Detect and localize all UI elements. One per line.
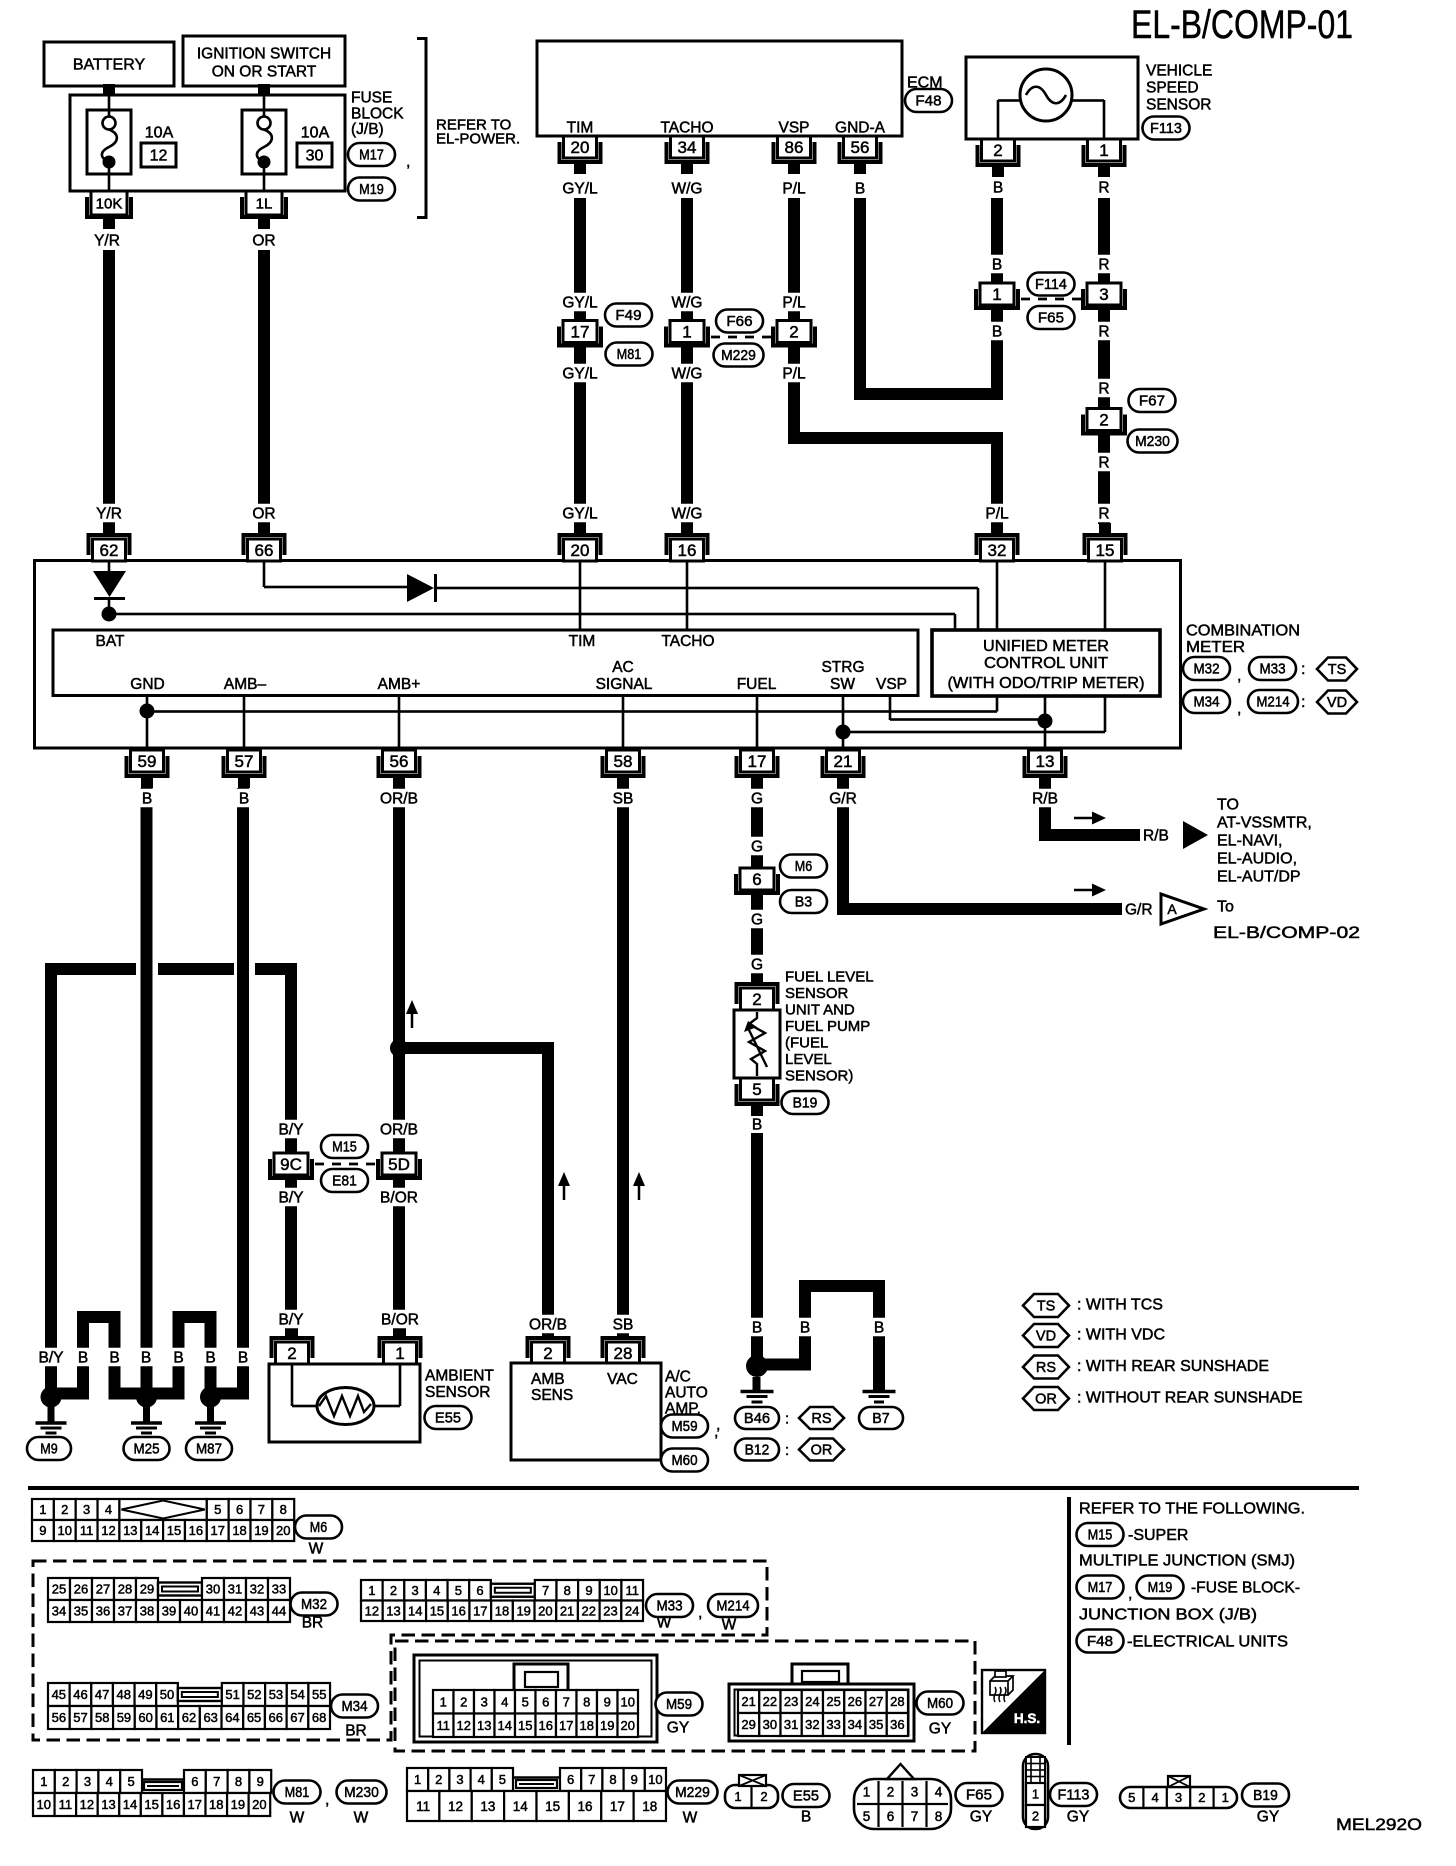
svg-text:M59: M59	[666, 1697, 692, 1713]
svg-text:66: 66	[255, 541, 274, 560]
svg-text:1: 1	[682, 322, 691, 341]
svg-text:RS: RS	[811, 1411, 831, 1427]
svg-text:R: R	[1098, 256, 1109, 273]
svg-text:20: 20	[621, 1718, 635, 1733]
svg-text:5D: 5D	[388, 1155, 410, 1174]
svg-text:B: B	[752, 1116, 762, 1133]
svg-text:12: 12	[457, 1718, 471, 1733]
svg-text:12: 12	[101, 1523, 115, 1538]
svg-text:57: 57	[235, 752, 254, 771]
svg-text:R: R	[1098, 179, 1109, 196]
svg-text:1: 1	[39, 1502, 46, 1517]
svg-text:16: 16	[189, 1523, 203, 1538]
svg-text:10: 10	[37, 1797, 51, 1812]
svg-text:1: 1	[414, 1772, 421, 1787]
svg-text:5: 5	[863, 1809, 871, 1824]
svg-text:3: 3	[481, 1694, 488, 1709]
svg-text:G: G	[751, 956, 763, 973]
svg-text:17: 17	[473, 1603, 487, 1618]
svg-text:,: ,	[698, 1605, 702, 1622]
svg-text:39: 39	[162, 1604, 176, 1619]
svg-text:10K: 10K	[96, 195, 123, 212]
svg-text:AMB: AMB	[531, 1371, 565, 1388]
svg-text:RS: RS	[1036, 1360, 1056, 1376]
svg-text:33: 33	[826, 1717, 840, 1732]
svg-text:A/C: A/C	[665, 1368, 691, 1385]
svg-text:5: 5	[522, 1694, 529, 1709]
svg-text:TACHO: TACHO	[661, 633, 714, 650]
svg-text:28: 28	[118, 1582, 132, 1597]
svg-text:EL-AUDIO,: EL-AUDIO,	[1217, 851, 1297, 868]
svg-text:15: 15	[167, 1523, 181, 1538]
svg-text:B: B	[855, 180, 865, 197]
svg-text:2: 2	[287, 1344, 296, 1363]
svg-text:B: B	[992, 256, 1002, 273]
svg-text:Y/R: Y/R	[94, 232, 120, 249]
svg-text:11: 11	[437, 1718, 451, 1733]
svg-text:56: 56	[851, 138, 870, 157]
svg-text:2: 2	[789, 322, 798, 341]
svg-text:13: 13	[480, 1799, 495, 1814]
svg-text:56: 56	[390, 752, 409, 771]
svg-text:GY: GY	[1257, 1808, 1279, 1825]
svg-text:43: 43	[250, 1604, 264, 1619]
svg-text:B7: B7	[872, 1411, 889, 1427]
svg-text:(WITH ODO/TRIP METER): (WITH ODO/TRIP METER)	[948, 675, 1145, 692]
svg-text:2: 2	[1099, 410, 1108, 429]
svg-text:13: 13	[123, 1523, 137, 1538]
svg-text:TIM: TIM	[567, 119, 594, 136]
svg-text:28: 28	[614, 1344, 633, 1363]
svg-text:50: 50	[160, 1687, 174, 1702]
svg-text:36: 36	[96, 1604, 110, 1619]
svg-text:F114: F114	[1035, 277, 1067, 293]
svg-text:W: W	[290, 1809, 305, 1826]
svg-text:4: 4	[105, 1502, 112, 1517]
svg-text:-SUPER: -SUPER	[1128, 1527, 1188, 1544]
svg-text:GY: GY	[929, 1720, 951, 1737]
svg-text:GY/L: GY/L	[562, 294, 598, 311]
svg-text:E55: E55	[435, 1411, 461, 1427]
svg-text:-FUSE BLOCK-: -FUSE BLOCK-	[1191, 1580, 1300, 1597]
svg-text:GND-A: GND-A	[835, 119, 886, 136]
svg-text:6: 6	[236, 1502, 243, 1517]
svg-text:: WITHOUT REAR SUNSHADE: : WITHOUT REAR SUNSHADE	[1077, 1390, 1303, 1407]
svg-text:B/Y: B/Y	[279, 1311, 304, 1328]
svg-text:GY: GY	[667, 1719, 689, 1736]
svg-text:6: 6	[191, 1774, 198, 1789]
svg-text:M25: M25	[133, 1442, 159, 1458]
svg-text:BATTERY: BATTERY	[73, 57, 146, 74]
svg-text:AC: AC	[612, 659, 634, 676]
svg-text:61: 61	[160, 1710, 174, 1725]
svg-text:COMBINATION: COMBINATION	[1186, 623, 1300, 640]
svg-text:9: 9	[585, 1583, 592, 1598]
svg-text:29: 29	[741, 1717, 755, 1732]
svg-text:4: 4	[433, 1583, 440, 1598]
svg-text:M81: M81	[617, 347, 642, 363]
svg-text:2: 2	[390, 1583, 397, 1598]
svg-text:20: 20	[571, 541, 590, 560]
svg-text:9: 9	[604, 1694, 611, 1709]
svg-text:12: 12	[80, 1797, 94, 1812]
svg-text:13: 13	[477, 1718, 491, 1733]
svg-text:,: ,	[1237, 668, 1241, 685]
svg-text:5: 5	[752, 1080, 761, 1099]
svg-text:P/L: P/L	[782, 180, 806, 197]
svg-text:: WITH REAR SUNSHADE: : WITH REAR SUNSHADE	[1077, 1358, 1269, 1375]
svg-text:23: 23	[784, 1694, 798, 1709]
svg-text:7: 7	[213, 1774, 220, 1789]
svg-text:B/Y: B/Y	[279, 1189, 304, 1206]
svg-text:16: 16	[451, 1603, 465, 1618]
svg-text:UNIFIED METER: UNIFIED METER	[983, 638, 1109, 655]
svg-text:34: 34	[52, 1604, 66, 1619]
svg-text:8: 8	[609, 1772, 616, 1787]
svg-text:8: 8	[235, 1774, 242, 1789]
svg-text:M19: M19	[359, 182, 384, 198]
svg-text:1: 1	[863, 1784, 871, 1799]
svg-text:OR: OR	[1035, 1392, 1057, 1408]
svg-text:TO: TO	[1217, 797, 1239, 814]
svg-text:VD: VD	[1036, 1329, 1056, 1345]
svg-text:48: 48	[117, 1687, 131, 1702]
svg-text:24: 24	[805, 1694, 819, 1709]
svg-text:,: ,	[1128, 1586, 1132, 1603]
svg-text:20: 20	[571, 138, 590, 157]
svg-text:R/B: R/B	[1143, 827, 1169, 844]
svg-text:17: 17	[210, 1523, 224, 1538]
svg-text:44: 44	[272, 1604, 286, 1619]
svg-text:6: 6	[752, 870, 761, 889]
svg-text:F113: F113	[1150, 121, 1182, 137]
svg-text:46: 46	[73, 1687, 87, 1702]
svg-text:MEL292O: MEL292O	[1336, 1815, 1422, 1834]
svg-text:M34: M34	[1193, 695, 1219, 711]
svg-text:6: 6	[476, 1583, 483, 1598]
svg-text:B: B	[993, 179, 1003, 196]
svg-text:86: 86	[785, 138, 804, 157]
svg-text:(J/B): (J/B)	[351, 121, 384, 138]
svg-text:B3: B3	[795, 895, 812, 911]
svg-text:13: 13	[1036, 752, 1055, 771]
svg-text:OR: OR	[252, 505, 275, 522]
svg-text:M60: M60	[927, 1696, 953, 1712]
svg-text:14: 14	[513, 1799, 529, 1814]
svg-text:B: B	[992, 323, 1002, 340]
svg-text:OR: OR	[252, 232, 275, 249]
svg-text:8: 8	[280, 1502, 287, 1517]
svg-text:7: 7	[588, 1772, 595, 1787]
svg-text:24: 24	[625, 1603, 639, 1618]
svg-text:1L: 1L	[256, 195, 273, 212]
svg-text:14: 14	[498, 1718, 512, 1733]
svg-text:58: 58	[614, 752, 633, 771]
svg-text:27: 27	[869, 1694, 883, 1709]
svg-text:14: 14	[408, 1603, 422, 1618]
svg-text:9C: 9C	[280, 1155, 302, 1174]
svg-text:40: 40	[184, 1604, 198, 1619]
svg-text:2: 2	[760, 1789, 767, 1804]
svg-text:A: A	[1167, 901, 1177, 917]
svg-text:18: 18	[209, 1797, 223, 1812]
svg-text:4: 4	[935, 1784, 943, 1799]
svg-text:TACHO: TACHO	[660, 119, 713, 136]
svg-text:FUEL PUMP: FUEL PUMP	[785, 1018, 870, 1035]
svg-text:W/G: W/G	[672, 180, 703, 197]
svg-text:1: 1	[1222, 1790, 1229, 1805]
svg-text:GY/L: GY/L	[562, 365, 598, 382]
svg-text:M34: M34	[341, 1699, 367, 1715]
svg-text:3: 3	[411, 1583, 418, 1598]
svg-text:17: 17	[571, 322, 590, 341]
svg-text:11: 11	[416, 1799, 430, 1814]
svg-text:21: 21	[560, 1603, 574, 1618]
svg-text:F67: F67	[1139, 394, 1165, 410]
svg-text:7: 7	[542, 1583, 549, 1598]
svg-text:To: To	[1217, 899, 1234, 916]
svg-text:W: W	[722, 1616, 737, 1633]
svg-text:37: 37	[118, 1604, 132, 1619]
svg-text:11: 11	[625, 1583, 639, 1598]
svg-text:20: 20	[538, 1603, 552, 1618]
svg-text:M15: M15	[1088, 1528, 1113, 1544]
svg-text:31: 31	[228, 1582, 242, 1597]
svg-text:6: 6	[567, 1772, 574, 1787]
svg-text:26: 26	[74, 1582, 88, 1597]
svg-text:18: 18	[232, 1523, 246, 1538]
svg-text:54: 54	[290, 1687, 304, 1702]
svg-text:EL-B/COMP-01: EL-B/COMP-01	[1131, 3, 1353, 47]
svg-text:Y/R: Y/R	[96, 505, 122, 522]
svg-text:65: 65	[247, 1710, 261, 1725]
svg-text:3: 3	[1099, 285, 1108, 304]
svg-text:W: W	[354, 1809, 369, 1826]
svg-text:P/L: P/L	[782, 294, 806, 311]
svg-text::: :	[1301, 661, 1305, 678]
svg-text:GY: GY	[970, 1808, 992, 1825]
svg-text:11: 11	[59, 1797, 73, 1812]
svg-text:B19: B19	[1253, 1788, 1278, 1804]
svg-text:17: 17	[559, 1718, 573, 1733]
svg-text:UNIT AND: UNIT AND	[785, 1001, 855, 1018]
svg-text:G/R: G/R	[829, 790, 857, 807]
svg-text:10A: 10A	[145, 125, 174, 142]
svg-text:W/G: W/G	[672, 294, 703, 311]
svg-text:58: 58	[95, 1710, 109, 1725]
svg-text:(FUEL: (FUEL	[785, 1034, 828, 1051]
svg-text:17: 17	[748, 752, 767, 771]
svg-text:AMBIENT: AMBIENT	[425, 1367, 494, 1384]
svg-text:11: 11	[80, 1523, 94, 1538]
svg-text:GY/L: GY/L	[562, 180, 598, 197]
svg-text:19: 19	[600, 1718, 614, 1733]
svg-text:BR: BR	[302, 1614, 324, 1631]
svg-text:20: 20	[252, 1797, 266, 1812]
svg-text:B46: B46	[744, 1411, 770, 1427]
svg-text:VAC: VAC	[607, 1371, 638, 1388]
svg-text:1: 1	[368, 1583, 375, 1598]
svg-text:W/G: W/G	[672, 365, 703, 382]
svg-text:12: 12	[150, 148, 168, 165]
svg-text:1: 1	[40, 1774, 47, 1789]
svg-text:16: 16	[578, 1799, 593, 1814]
svg-text:SENSOR: SENSOR	[785, 985, 849, 1002]
svg-text:SENSOR: SENSOR	[425, 1384, 490, 1401]
svg-text:SB: SB	[613, 1316, 634, 1333]
svg-text:M229: M229	[675, 1785, 710, 1801]
svg-text:68: 68	[312, 1710, 326, 1725]
svg-text:G: G	[751, 790, 763, 807]
svg-text:2: 2	[993, 141, 1002, 160]
svg-text:34: 34	[678, 138, 697, 157]
svg-text:,: ,	[325, 1792, 329, 1809]
svg-text:M19: M19	[1148, 1580, 1173, 1596]
svg-text:21: 21	[741, 1694, 755, 1709]
svg-text::: :	[785, 1442, 789, 1459]
svg-text:GY: GY	[1067, 1808, 1089, 1825]
svg-text:20: 20	[276, 1523, 290, 1538]
svg-text:19: 19	[516, 1603, 530, 1618]
svg-text:10: 10	[648, 1772, 662, 1787]
svg-text:5: 5	[1128, 1790, 1135, 1805]
svg-text:BLOCK: BLOCK	[351, 105, 404, 122]
svg-text:B/Y: B/Y	[279, 1121, 304, 1138]
svg-text:15: 15	[430, 1603, 444, 1618]
svg-text:SENS: SENS	[531, 1387, 573, 1404]
svg-text:49: 49	[138, 1687, 152, 1702]
svg-text:OR/B: OR/B	[380, 1121, 418, 1138]
svg-text:3: 3	[83, 1502, 90, 1517]
svg-text:2: 2	[1032, 1809, 1039, 1824]
svg-text:STRG: STRG	[821, 659, 864, 676]
svg-text:41: 41	[206, 1604, 220, 1619]
svg-text:4: 4	[478, 1772, 485, 1787]
svg-text:22: 22	[763, 1694, 777, 1709]
svg-text:G: G	[751, 911, 763, 928]
svg-text:32: 32	[988, 541, 1007, 560]
svg-text:B19: B19	[793, 1096, 818, 1112]
svg-text:1: 1	[734, 1789, 741, 1804]
svg-text:35: 35	[74, 1604, 88, 1619]
svg-text:F48: F48	[1087, 1634, 1113, 1650]
svg-text:64: 64	[225, 1710, 239, 1725]
svg-text:M33: M33	[656, 1599, 682, 1615]
svg-text:51: 51	[225, 1687, 239, 1702]
svg-text:F65: F65	[966, 1788, 992, 1804]
svg-text:16: 16	[678, 541, 697, 560]
svg-text:60: 60	[138, 1710, 152, 1725]
svg-text:VD: VD	[1327, 695, 1347, 711]
svg-text:AT-VSSMTR,: AT-VSSMTR,	[1217, 815, 1312, 832]
svg-text:FUSE: FUSE	[351, 89, 392, 106]
svg-text:10: 10	[58, 1523, 72, 1538]
svg-text:FUEL: FUEL	[737, 676, 777, 693]
svg-text:F49: F49	[615, 308, 641, 324]
svg-text:B: B	[801, 1808, 811, 1825]
svg-text:R/B: R/B	[1032, 790, 1058, 807]
svg-text:2: 2	[62, 1774, 69, 1789]
svg-text:TS: TS	[1328, 662, 1347, 678]
svg-text:26: 26	[848, 1694, 862, 1709]
svg-text:M59: M59	[671, 1419, 697, 1435]
svg-text:27: 27	[96, 1582, 110, 1597]
svg-text:15: 15	[1096, 541, 1115, 560]
svg-text:4: 4	[501, 1694, 508, 1709]
svg-text:EL-AUT/DP: EL-AUT/DP	[1217, 869, 1301, 886]
svg-text:10: 10	[603, 1583, 617, 1598]
svg-text:2: 2	[460, 1694, 467, 1709]
svg-text:SB: SB	[613, 790, 634, 807]
svg-text:R: R	[1098, 454, 1109, 471]
svg-text:10: 10	[621, 1694, 635, 1709]
svg-text:36: 36	[890, 1717, 904, 1732]
svg-text:W: W	[657, 1614, 672, 1631]
svg-text:,: ,	[406, 154, 410, 171]
svg-text:33: 33	[272, 1582, 286, 1597]
svg-text:M15: M15	[332, 1140, 357, 1156]
svg-text:IGNITION SWITCH: IGNITION SWITCH	[197, 45, 331, 62]
svg-text:OR/B: OR/B	[380, 790, 418, 807]
svg-text:8: 8	[935, 1809, 943, 1824]
svg-text:EL-POWER.: EL-POWER.	[436, 130, 520, 147]
svg-text:,: ,	[1237, 701, 1241, 718]
svg-text:3: 3	[84, 1774, 91, 1789]
svg-text:21: 21	[834, 752, 853, 771]
svg-text:OR/B: OR/B	[529, 1316, 567, 1333]
svg-text:AUTO: AUTO	[665, 1384, 708, 1401]
svg-text:B: B	[874, 1319, 884, 1336]
svg-text:MULTIPLE JUNCTION (SMJ): MULTIPLE JUNCTION (SMJ)	[1079, 1553, 1295, 1570]
svg-text:GY/L: GY/L	[562, 505, 598, 522]
svg-text:45: 45	[52, 1687, 66, 1702]
svg-text:TIM: TIM	[569, 633, 596, 650]
svg-text:H.S.: H.S.	[1014, 1711, 1040, 1726]
svg-text:F66: F66	[726, 314, 752, 330]
svg-text:30: 30	[763, 1717, 777, 1732]
svg-text:32: 32	[805, 1717, 819, 1732]
svg-text:P/L: P/L	[985, 505, 1009, 522]
svg-text:1: 1	[395, 1344, 404, 1363]
svg-text:REFER TO THE FOLLOWING.: REFER TO THE FOLLOWING.	[1079, 1501, 1305, 1518]
svg-text:: WITH VDC: : WITH VDC	[1077, 1327, 1165, 1344]
svg-text:E81: E81	[332, 1174, 357, 1190]
svg-text:17: 17	[187, 1797, 201, 1812]
svg-text:1: 1	[440, 1694, 447, 1709]
svg-text:M6: M6	[795, 859, 812, 875]
svg-text:B/OR: B/OR	[380, 1189, 418, 1206]
svg-text:19: 19	[254, 1523, 268, 1538]
svg-text:52: 52	[247, 1687, 261, 1702]
svg-text:W/G: W/G	[672, 505, 703, 522]
svg-text:38: 38	[140, 1604, 154, 1619]
svg-text:B: B	[142, 790, 152, 807]
svg-text:15: 15	[545, 1799, 560, 1814]
svg-text:18: 18	[495, 1603, 509, 1618]
svg-text:17: 17	[610, 1799, 625, 1814]
svg-text:M214: M214	[1256, 695, 1289, 711]
svg-text:15: 15	[518, 1718, 532, 1733]
svg-text:2: 2	[543, 1344, 552, 1363]
svg-text:M214: M214	[716, 1599, 749, 1615]
svg-text:M230: M230	[344, 1785, 379, 1801]
svg-text:B: B	[173, 1349, 183, 1366]
svg-text:B: B	[78, 1349, 88, 1366]
svg-text:59: 59	[138, 752, 157, 771]
svg-text:2: 2	[887, 1784, 895, 1799]
svg-text:4: 4	[106, 1774, 113, 1789]
svg-text:M6: M6	[310, 1520, 327, 1536]
